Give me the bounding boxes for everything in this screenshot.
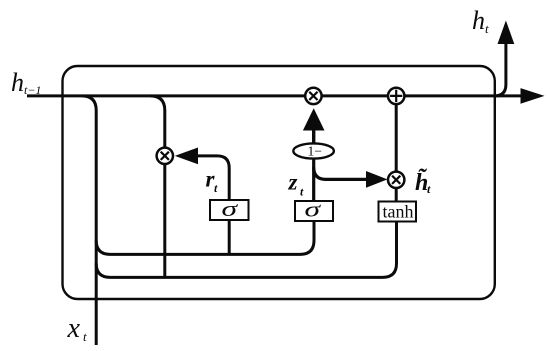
svg-text:1−: 1−	[308, 144, 322, 159]
wire: r_t arrow from sigma-r up and left into reset-multiply	[196, 156, 229, 201]
tanh box	[379, 202, 417, 222]
svg-text:t: t	[214, 181, 218, 195]
svg-text:tanh: tanh	[383, 202, 414, 222]
wire: h_t output branch up	[495, 42, 506, 96]
wire: z branch right into update-multiply	[314, 167, 367, 179]
arrowhead: h_t up	[498, 21, 515, 45]
sigma box (update gate)	[295, 201, 333, 221]
svg-text:h: h	[472, 6, 485, 35]
svg-text:t: t	[485, 21, 489, 36]
svg-text:t: t	[427, 182, 431, 196]
svg-text:σ: σ	[222, 196, 239, 221]
arrowhead: into update-multiply (points right)	[366, 171, 387, 188]
multiply node (reset gate applied to h)	[157, 148, 173, 164]
svg-text:t: t	[83, 329, 87, 344]
wire: left branch down from h line (x_t column)	[82, 96, 96, 345]
1- ellipse	[293, 143, 334, 158]
arrowhead: into reset-multiply (points left)	[175, 148, 198, 165]
svg-text:h: h	[11, 68, 24, 97]
wire: sigma-r stem down to bundle 1	[228, 220, 231, 254]
multiply node on main line ((1-z) * h)	[305, 88, 321, 104]
wire: main h line (h_{t-1} to output arrow)	[27, 94, 521, 97]
wire: z column from sigma-z up to 1- ellipse	[312, 160, 315, 202]
svg-text:t−1: t−1	[24, 83, 41, 97]
arrowhead: up into main-line multiply	[303, 108, 325, 130]
wire: from 1- ellipse up to arrowhead	[312, 129, 315, 144]
wire: bundle 2 (feeds tanh), curves from x_t column to tanh stem	[96, 222, 396, 278]
svg-text:x: x	[67, 313, 81, 344]
wire: from reset-multiply node down to bundle 2	[163, 165, 166, 278]
GRU cell boundary (rounded rectangle)	[63, 66, 495, 299]
wire: from add node down to update-multiply	[395, 104, 398, 172]
arrowhead: main output right	[521, 88, 545, 104]
svg-text:t: t	[300, 185, 304, 199]
multiply node (z * h~)	[388, 172, 404, 188]
svg-text:σ: σ	[305, 197, 322, 222]
add node on main line	[388, 88, 404, 104]
wire: second branch down from h line to reset-multiply	[150, 96, 165, 148]
wire: bundle 1 (feeds sigma gates), curves from x_t column to sigma-z stem	[96, 221, 314, 254]
svg-text:z: z	[288, 170, 298, 195]
wire: update-multiply down to tanh	[395, 188, 398, 202]
sigma box (reset gate)	[210, 200, 249, 220]
